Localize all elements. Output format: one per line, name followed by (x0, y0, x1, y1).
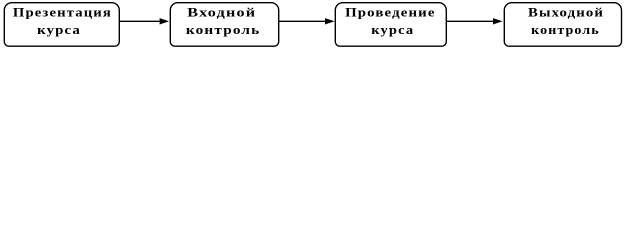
svg-text:контроль: контроль (186, 22, 261, 37)
process box 3 "Проведение курса" (335, 3, 446, 47)
process box 1 "Презентация курса" (4, 3, 119, 47)
svg-text:курса: курса (371, 22, 414, 37)
box 2 rounded-rectangle outline (170, 3, 278, 47)
svg-text:Презентация: Презентация (13, 4, 112, 19)
connector arrow 2 (box 2 to box 3) (279, 18, 335, 24)
arrow 3 shaft wire (446, 20, 493, 22)
arrow 3 head (493, 18, 503, 24)
svg-text:курса: курса (37, 22, 81, 37)
process box 2 "Входной контроль" (170, 3, 278, 47)
box 3 rounded-rectangle outline (335, 3, 446, 47)
arrow 2 shaft wire (279, 20, 326, 22)
connector arrow 1 (box 1 to box 2) (119, 18, 169, 24)
box 1 rounded-rectangle outline (4, 3, 119, 47)
arrow 1 shaft wire (119, 20, 160, 22)
arrow 2 head (325, 18, 335, 24)
svg-text:Выходной: Выходной (528, 4, 604, 19)
arrow 1 head (160, 18, 169, 24)
svg-text:Проведение: Проведение (345, 4, 436, 19)
box 4 rounded-rectangle outline (504, 3, 621, 47)
connector arrow 3 (box 3 to box 4) (446, 18, 502, 24)
process box 4 "Выходной контроль" (504, 3, 621, 47)
svg-text:Входной: Входной (187, 4, 256, 19)
svg-text:контроль: контроль (531, 22, 600, 37)
